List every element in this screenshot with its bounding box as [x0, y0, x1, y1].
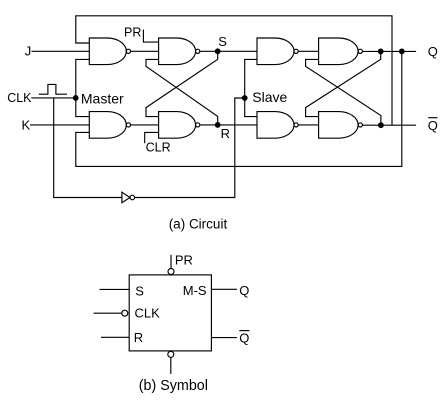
node R dot: [215, 122, 221, 128]
svg-text:(a) Circuit: (a) Circuit: [169, 216, 228, 231]
wire: G4 output to G3: [131, 124, 159, 126]
node: Q feedback dot: [399, 49, 405, 55]
svg-text:S: S: [135, 284, 144, 299]
wire: K input: [30, 124, 89, 126]
Qbar pin wire (symbol): [211, 337, 237, 339]
CLK pin bubble (symbol): [122, 310, 128, 316]
nand gate G7 (slave R input): [257, 112, 294, 139]
svg-text:Master: Master: [81, 90, 124, 106]
wire: G5 output to G6: [298, 50, 318, 52]
nand gate G1 (J, master input): [89, 38, 126, 65]
nand gate G5 (slave S input): [257, 38, 294, 65]
clock pulse symbol: [39, 84, 67, 94]
wire: master cross-coupling R node to G2 input: [146, 59, 218, 125]
wire: slave cross-coupling Q node to G8 input: [306, 51, 381, 116]
nand gate G4 (K, master input): [89, 112, 126, 139]
svg-text:K: K: [22, 118, 31, 133]
svg-text:CLK: CLK: [135, 305, 161, 320]
S pin wire (symbol): [100, 288, 130, 290]
bottom pin bubble (symbol): [168, 351, 174, 357]
nand gate G2 (master S latch, PR): [159, 38, 196, 65]
wire: master clock branch vertical: [76, 59, 90, 116]
nand gate G8 (slave Qbar latch): [319, 112, 359, 139]
symbol box (M-S flip-flop): [129, 275, 211, 351]
wire: bottom feedback rail from K-gate input to Q node: [76, 51, 402, 166]
svg-text:M-S: M-S: [183, 283, 207, 298]
inverter (clock to slave): [122, 192, 130, 203]
wire: G7 output to G8: [298, 124, 318, 126]
wire: slave cross-coupling Qbar node to G6 input: [306, 59, 381, 125]
svg-text:PR: PR: [175, 252, 193, 267]
wire: G6 output Q line: [362, 50, 416, 52]
wire: CLK input to Master node: [31, 97, 75, 99]
wire: master cross-coupling S node to G3 input: [146, 51, 218, 116]
nand gate G3 (master R latch, CLR): [159, 112, 196, 139]
svg-text:PR: PR: [124, 26, 141, 40]
R pin wire (symbol): [101, 336, 129, 338]
svg-text:Q: Q: [428, 44, 438, 59]
svg-text:(b) Symbol: (b) Symbol: [139, 378, 208, 394]
wire: CLR input stub: [145, 132, 159, 143]
svg-text:R: R: [221, 126, 230, 141]
wire: G2 output through S node to G5: [200, 50, 257, 52]
wire: G1 output to G2: [131, 50, 159, 52]
nand gate G6 (slave Q latch): [319, 38, 358, 65]
wire: slave clock branch vertical: [245, 59, 257, 116]
PR pin wire (symbol): [170, 255, 172, 269]
node S dot: [215, 48, 221, 54]
wire: J input: [32, 50, 90, 52]
wire: G8 output Qbar line: [362, 124, 416, 126]
overbar of Qbar (symbol): [239, 330, 249, 332]
overbar of Qbar output: [428, 117, 437, 119]
node: Q cross-coupling dot: [378, 49, 384, 55]
svg-text:CLR: CLR: [146, 141, 171, 155]
node: Qbar dot: [378, 122, 384, 128]
bottom pin wire (symbol): [170, 358, 172, 374]
svg-text:Slave: Slave: [252, 89, 287, 105]
wire: top feedback rail from Qbar down-right vertical to J-gate top input: [76, 16, 392, 125]
wire: G3 output through R node to G7: [200, 124, 257, 126]
node: Slave junction dot: [242, 95, 248, 101]
CLK pin wire (symbol): [94, 312, 122, 314]
svg-text:R: R: [134, 330, 143, 345]
svg-text:J: J: [25, 44, 32, 59]
wire: PR input stub: [143, 30, 158, 42]
svg-text:CLK: CLK: [7, 91, 32, 105]
wire: clock line down to inverter input: [54, 98, 122, 198]
PR pin bubble (symbol): [168, 269, 174, 275]
svg-text:Q: Q: [239, 283, 249, 298]
Q pin wire (symbol): [211, 288, 237, 290]
node: Master junction dot: [73, 95, 79, 101]
wire: inverter output up to Slave node: [135, 98, 245, 198]
svg-text:S: S: [218, 34, 227, 49]
svg-text:Q: Q: [239, 330, 249, 345]
svg-text:Q: Q: [428, 118, 438, 133]
